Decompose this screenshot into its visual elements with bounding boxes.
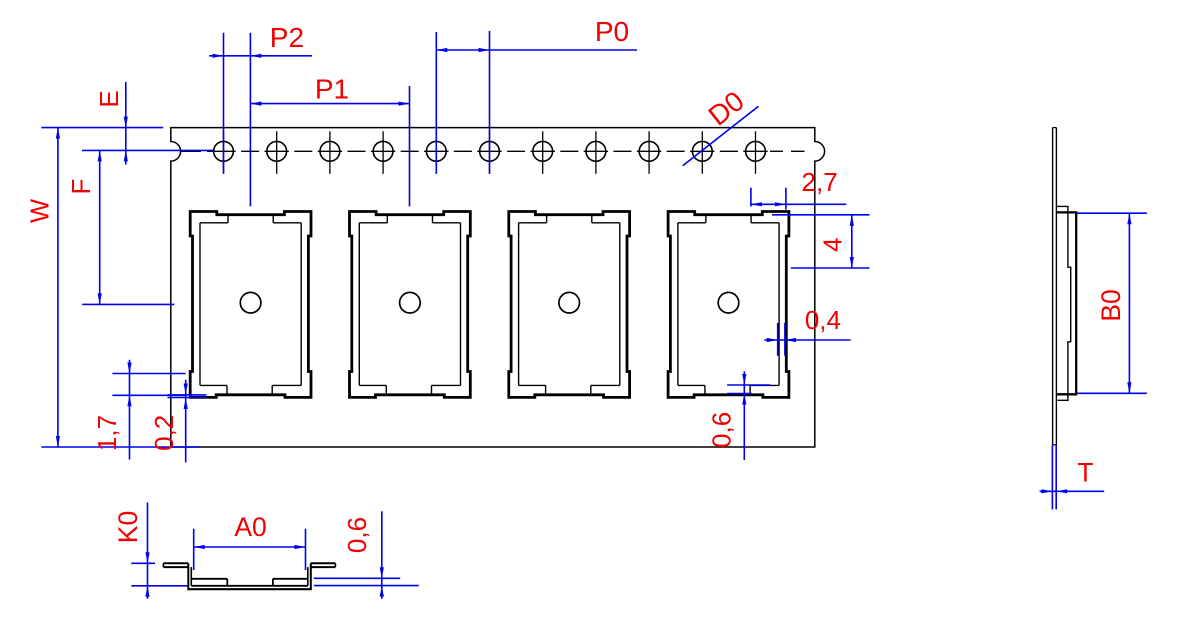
label K0 — [113, 511, 143, 543]
label D0 — [703, 85, 750, 131]
label 0,2 — [149, 415, 179, 451]
dimension A0 lines — [194, 529, 306, 570]
label 2,7 — [802, 167, 838, 197]
dimension 0,6 section lines — [314, 511, 419, 599]
pocket 2 center hole — [400, 292, 421, 313]
svg-text:K0: K0 — [113, 511, 143, 543]
svg-text:P2: P2 — [270, 22, 304, 53]
pocket 3 outer outline — [509, 212, 630, 398]
svg-text:4: 4 — [817, 238, 847, 252]
dimension T lines — [1040, 445, 1105, 510]
sprocket centerline dashes — [182, 150, 805, 152]
label F — [66, 179, 96, 195]
label P1 — [315, 73, 349, 104]
label B0 — [1096, 289, 1126, 321]
svg-text:2,7: 2,7 — [802, 167, 838, 197]
pocket 4 center hole — [718, 292, 739, 313]
dimension 0,4 lines — [764, 323, 850, 356]
svg-text:0,6: 0,6 — [342, 517, 372, 553]
label 0,6 section — [342, 517, 372, 553]
svg-text:W: W — [27, 199, 55, 223]
pocket 2 outer outline — [350, 212, 471, 398]
pocket 1 inner contour — [200, 215, 301, 395]
dimension 4 lines — [772, 215, 870, 268]
svg-text:F: F — [66, 179, 96, 195]
side view tape and pocket profile — [1053, 128, 1077, 445]
svg-text:1,7: 1,7 — [92, 415, 122, 451]
label 0,6 main — [706, 412, 736, 448]
label P2 — [270, 22, 304, 53]
dimension D0 leader — [683, 106, 759, 166]
svg-text:P0: P0 — [595, 16, 629, 47]
dimension B0 lines — [1077, 213, 1147, 393]
label E — [94, 90, 124, 107]
pocket 3 inner contour — [519, 215, 620, 395]
pocket 4 outer outline — [668, 212, 789, 398]
dimension P2 lines — [209, 33, 312, 207]
dimension 1,7 lines — [112, 360, 185, 460]
label T — [1077, 458, 1093, 488]
dimension K0 lines — [131, 503, 187, 599]
dimension E lines — [82, 82, 214, 165]
tape outline with edge notches — [171, 128, 825, 447]
dimension 2,7 lines — [751, 188, 846, 210]
pocket 3 center hole — [559, 292, 580, 313]
svg-text:E: E — [94, 90, 124, 107]
dimension P0 lines — [436, 31, 637, 174]
sprocket hole crosshairs — [211, 131, 767, 174]
label A0 — [234, 512, 266, 542]
svg-text:0,6: 0,6 — [706, 412, 736, 448]
svg-text:0,4: 0,4 — [805, 305, 841, 335]
svg-text:A0: A0 — [234, 512, 266, 542]
dimension P1 lines — [250, 86, 409, 206]
label 4 — [817, 238, 847, 252]
label 1,7 — [92, 415, 122, 451]
label W — [27, 199, 55, 223]
svg-text:P1: P1 — [315, 73, 349, 104]
pocket 1 center hole — [240, 292, 261, 313]
dimension F lines — [82, 150, 174, 304]
label P0 — [595, 16, 629, 47]
svg-text:0,2: 0,2 — [149, 415, 179, 451]
pocket 2 inner contour — [359, 215, 460, 395]
section view pocket profile — [163, 563, 335, 589]
pocket 4 inner contour — [678, 215, 779, 395]
dimension W lines — [41, 128, 199, 447]
dimension 0,6 main lines — [727, 371, 770, 460]
dimension 0,2 lines — [168, 380, 207, 463]
svg-text:T: T — [1077, 458, 1093, 488]
pocket 1 outer outline — [190, 212, 311, 398]
svg-text:B0: B0 — [1096, 289, 1126, 321]
sprocket holes row — [214, 141, 766, 161]
label 0,4 — [805, 305, 841, 335]
